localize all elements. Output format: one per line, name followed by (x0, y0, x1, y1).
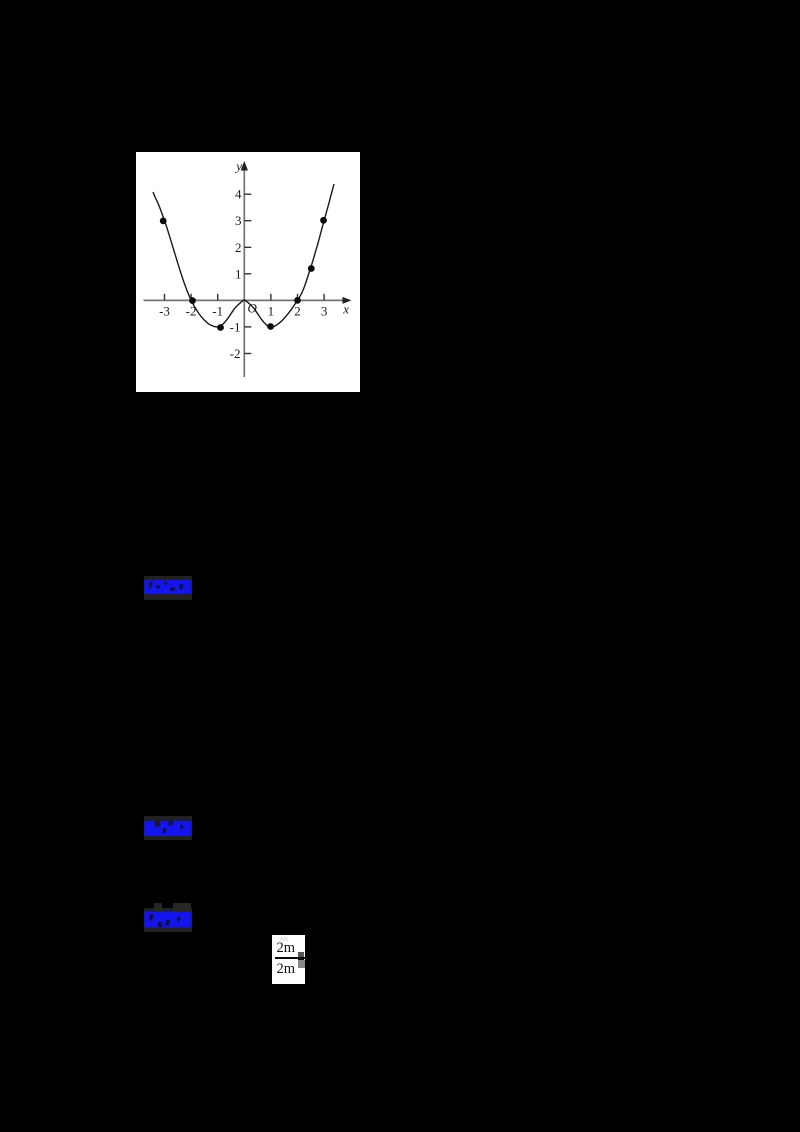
svg-text:-1: -1 (230, 319, 241, 334)
svg-text:-2: -2 (230, 346, 241, 361)
svg-text:-2: -2 (186, 304, 197, 319)
svg-text:y: y (234, 159, 242, 174)
svg-text:1: 1 (268, 304, 275, 319)
svg-text:3: 3 (235, 213, 242, 228)
svg-text:1: 1 (235, 266, 242, 281)
svg-text:2: 2 (294, 304, 301, 319)
svg-text:O: O (248, 301, 258, 316)
svg-text:-3: -3 (159, 304, 170, 319)
svg-text:x: x (342, 302, 349, 317)
svg-text:3: 3 (321, 304, 328, 319)
svg-text:4: 4 (235, 187, 242, 202)
svg-text:-1: -1 (212, 304, 223, 319)
svg-text:2: 2 (235, 240, 242, 255)
